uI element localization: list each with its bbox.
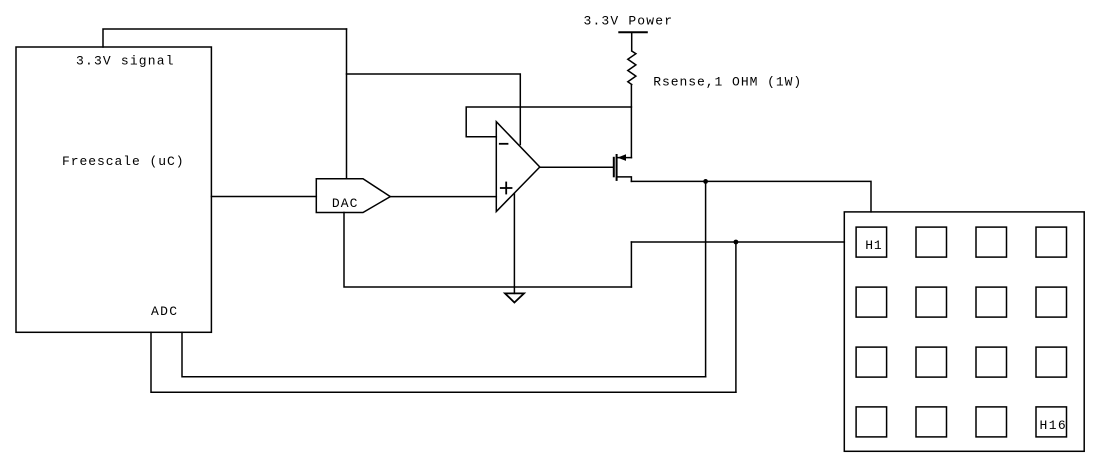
arrow on drain stub bbox=[618, 154, 627, 161]
svg-text:H16: H16 bbox=[1040, 418, 1066, 433]
wire heater return down to ground rail bbox=[630, 242, 632, 287]
svg-text:DAC: DAC bbox=[332, 196, 358, 211]
op-amp plus input marking bbox=[501, 183, 512, 194]
op-amp minus input marking bbox=[500, 143, 508, 145]
heater H15 bbox=[976, 407, 1007, 437]
heater H14 bbox=[916, 407, 947, 437]
drain stub bbox=[617, 157, 632, 159]
heater H10 bbox=[916, 347, 947, 377]
heater H6 bbox=[916, 287, 947, 317]
svg-text:Freescale (uC): Freescale (uC) bbox=[62, 154, 184, 169]
wire DAC output to op-amp plus input bbox=[390, 196, 496, 198]
gate bar bbox=[613, 158, 615, 177]
heater H12 bbox=[1036, 347, 1067, 377]
heater H13 bbox=[856, 407, 887, 437]
junction node B dot on return line bbox=[734, 240, 739, 245]
heater H9 bbox=[856, 347, 887, 377]
heater H3 bbox=[976, 227, 1007, 257]
heater H11 bbox=[976, 347, 1007, 377]
svg-text:H1: H1 bbox=[865, 238, 882, 253]
wire DAC bottom to ground rail bbox=[344, 213, 631, 288]
svg-text:ADC: ADC bbox=[151, 304, 177, 319]
heater H2 bbox=[916, 227, 947, 257]
wire heater return line bbox=[631, 241, 844, 243]
svg-text:3.3V signal: 3.3V signal bbox=[76, 54, 174, 69]
microcontroller U1 Freescale uC box bbox=[16, 47, 211, 332]
resistor Rsense zigzag bbox=[628, 51, 636, 85]
channel bar bbox=[616, 155, 618, 180]
heater H16 bbox=[1036, 407, 1067, 437]
wire ADC sense 2 from uC bottom bbox=[151, 332, 736, 392]
power stub bbox=[631, 32, 633, 51]
svg-text:3.3V Power: 3.3V Power bbox=[584, 14, 673, 29]
wire node B down to ADC sense 2 bbox=[735, 242, 737, 392]
wire ADC sense 1 from uC bottom bbox=[182, 332, 706, 376]
wire node A down to ADC sense 1 bbox=[705, 181, 707, 376]
wire vertical from signal net down to DAC top bbox=[346, 29, 348, 179]
transistor Q1 N-MOSFET bbox=[614, 154, 632, 181]
wire MOSFET source to heater array top bbox=[631, 181, 871, 212]
DAC block bbox=[316, 179, 390, 213]
heater H1 bbox=[856, 227, 887, 257]
wire op-amp output to MOSFET gate bbox=[540, 166, 613, 168]
source stub with jog bbox=[617, 177, 632, 182]
svg-text:Rsense,1 OHM (1W): Rsense,1 OHM (1W) bbox=[653, 74, 801, 89]
heater H8 bbox=[1036, 287, 1067, 317]
wire branch at y=74 to op-amp bbox=[347, 74, 521, 145]
wire op-amp lower pin down to ground bbox=[513, 194, 515, 294]
junction node A dot on source line bbox=[703, 179, 708, 184]
wire feedback from drain node to op-amp minus input bbox=[466, 107, 631, 137]
heater array block bbox=[844, 212, 1084, 451]
heater H7 bbox=[976, 287, 1007, 317]
wire uC right edge to DAC input bbox=[211, 196, 316, 198]
ground bbox=[505, 293, 524, 302]
heater H5 bbox=[856, 287, 887, 317]
heater H4 bbox=[1036, 227, 1067, 257]
op-amp U2 triangle bbox=[496, 122, 540, 212]
power symbol 3.3V bar bbox=[619, 31, 647, 33]
wire drain vertical up to resistor bottom bbox=[630, 85, 632, 158]
wire uC top to 3.3V signal net riser bbox=[103, 29, 347, 47]
